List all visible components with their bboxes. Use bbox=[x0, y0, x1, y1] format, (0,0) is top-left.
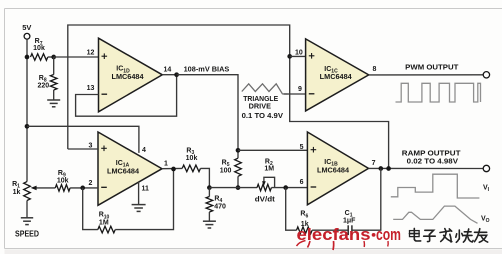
op-amp U: IC1B LMC6484 bbox=[307, 132, 368, 205]
watermark chinese char fa bbox=[440, 229, 452, 242]
svg-text:LMC6484: LMC6484 bbox=[320, 74, 352, 81]
svg-text:12: 12 bbox=[87, 50, 95, 57]
resistor R3 10k bbox=[182, 147, 212, 190]
watermark chinese char shao bbox=[456, 229, 473, 242]
svg-text:1M: 1M bbox=[99, 220, 109, 227]
svg-text:9: 9 bbox=[298, 86, 302, 93]
wire bias to IC1B pin 5 column bbox=[177, 75, 238, 151]
node 108-mV bias (IC1D output) bbox=[162, 72, 179, 77]
watermark chinese char dian bbox=[410, 228, 421, 241]
ground below R4 bbox=[203, 221, 216, 228]
svg-text:10: 10 bbox=[295, 50, 303, 57]
svg-text:1M: 1M bbox=[264, 166, 274, 173]
svg-text:SPEED: SPEED bbox=[15, 228, 39, 238]
svg-text:100: 100 bbox=[220, 167, 232, 174]
svg-text:LMC6484: LMC6484 bbox=[317, 167, 349, 174]
svg-text:PWM OUTPUT: PWM OUTPUT bbox=[405, 62, 459, 71]
PWM waveform bbox=[396, 83, 481, 102]
svg-text:220: 220 bbox=[37, 82, 49, 89]
node pin 10 tap bbox=[287, 54, 292, 59]
wire summing run to IC1B pin 6 bbox=[209, 185, 307, 190]
svg-text:1k: 1k bbox=[13, 189, 21, 196]
svg-text:10k: 10k bbox=[33, 45, 45, 52]
svg-text:6: 6 bbox=[300, 179, 304, 186]
ground below R1 bbox=[21, 218, 33, 225]
wire IC1D feedback output to pin 13 bbox=[76, 75, 177, 117]
ground below pin 11 bbox=[132, 205, 146, 212]
wire to IC1B pin 5 bbox=[238, 149, 307, 151]
svg-text:2: 2 bbox=[88, 180, 92, 187]
op-amp U: IC1C LMC6484 bbox=[306, 39, 369, 111]
resistor R8 220 bbox=[37, 57, 57, 100]
ground below R8 bbox=[47, 100, 60, 107]
watermark chinese char zi bbox=[424, 230, 436, 241]
resistor R7 10k bbox=[31, 38, 57, 60]
svg-text:DRIVE: DRIVE bbox=[249, 103, 272, 110]
svg-text:1: 1 bbox=[164, 160, 168, 167]
svg-text:10k: 10k bbox=[57, 177, 69, 184]
label TRIANGLE DRIVE 0.1 TO 4.9V bbox=[242, 96, 284, 120]
op-amp U: IC1D LMC6484 bbox=[99, 38, 163, 112]
svg-text:LMC6484: LMC6484 bbox=[107, 168, 139, 175]
RAMP output terminal bbox=[483, 165, 489, 171]
svg-text:5V: 5V bbox=[22, 23, 31, 32]
wire RAMP output bbox=[369, 166, 484, 171]
wire divider node to IC1D pin 12 bbox=[54, 56, 99, 58]
resistor R6 1k bbox=[286, 188, 349, 234]
svg-text:0.1 TO 4.9V: 0.1 TO 4.9V bbox=[242, 113, 284, 120]
resistor R5 100 bbox=[220, 148, 242, 190]
svg-text:4: 4 bbox=[142, 147, 146, 154]
5V supply terminal bbox=[22, 23, 31, 57]
wire triangle feedback top run bbox=[68, 25, 290, 149]
potentiometer R2 1M dV/dt bbox=[257, 158, 275, 191]
wire 5V rail down to speed pot bbox=[25, 55, 30, 182]
svg-text:13: 13 bbox=[87, 85, 95, 92]
wire 5V to IC1A pin 4 bbox=[27, 126, 139, 153]
watermark elecfans.com bbox=[297, 225, 402, 250]
svg-text:LMC6484: LMC6484 bbox=[112, 74, 144, 81]
potentiometer R1 1k SPEED bbox=[12, 181, 55, 218]
triangle-wave icon bbox=[242, 84, 288, 94]
PWM output terminal bbox=[483, 72, 489, 78]
resistor R4 470 bbox=[206, 188, 226, 221]
svg-text:470: 470 bbox=[214, 203, 226, 210]
svg-text:10k: 10k bbox=[186, 155, 198, 162]
svg-text:0.02 TO 4.98V: 0.02 TO 4.98V bbox=[407, 156, 458, 165]
resistor R10 1M feedback bbox=[83, 169, 174, 233]
watermark chinese char you bbox=[475, 229, 488, 243]
svg-text:TRIANGLE: TRIANGLE bbox=[243, 96, 278, 103]
svg-text:5: 5 bbox=[300, 144, 304, 151]
svg-text:11: 11 bbox=[141, 185, 149, 192]
wire into pin 10 bbox=[290, 55, 306, 57]
pin 11 stub and label bbox=[139, 182, 149, 204]
op-amp U: IC1A LMC6484 bbox=[98, 132, 162, 205]
node IC1A output bbox=[162, 167, 182, 172]
svg-text:dV/dt: dV/dt bbox=[255, 197, 276, 204]
capacitor C1 1uF bbox=[343, 169, 381, 236]
V_O waveform bbox=[393, 206, 477, 223]
svg-text:14: 14 bbox=[164, 67, 172, 74]
wire triangle feedback mid run bbox=[290, 56, 389, 168]
svg-text:8: 8 bbox=[372, 66, 376, 73]
wire into pin 9 bbox=[284, 93, 306, 95]
svg-text:108-mV BIAS: 108-mV BIAS bbox=[184, 65, 230, 74]
resistor R9 10k bbox=[55, 170, 98, 191]
wire PWM output bbox=[369, 74, 484, 76]
wire into pin 3 bbox=[68, 148, 98, 150]
svg-text:7: 7 bbox=[372, 160, 376, 167]
label RAMP OUTPUT bbox=[402, 149, 461, 166]
V_I waveform bbox=[391, 174, 480, 198]
svg-text:1μF: 1μF bbox=[343, 217, 356, 224]
